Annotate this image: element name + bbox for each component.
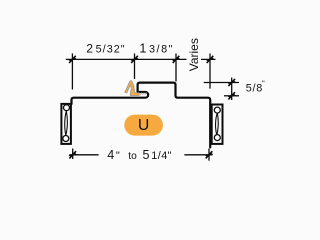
svg-text:": " <box>116 150 120 162</box>
5/8 dimension <box>204 78 239 101</box>
bottom dimension line <box>69 149 212 161</box>
gray compression marks <box>140 93 146 95</box>
svg-text:3/8": 3/8" <box>149 44 174 56</box>
tick throat right <box>205 151 214 158</box>
tick throat left <box>68 151 77 158</box>
left anchor plate <box>61 104 71 144</box>
tick at varies-right extension <box>206 56 215 63</box>
tick 5/8 top <box>227 79 236 86</box>
svg-text:to: to <box>128 151 137 162</box>
top dimension line <box>66 53 216 89</box>
svg-text:U: U <box>138 117 149 134</box>
svg-text:1/4": 1/4" <box>151 150 172 162</box>
right anchor plate <box>212 105 223 144</box>
svg-text:5/32": 5/32" <box>96 44 126 56</box>
tick at stop-left extension <box>130 56 139 63</box>
extension line varies-right <box>209 54 211 89</box>
drywall clip (orange) <box>125 81 147 96</box>
ticks on top dimension <box>68 56 214 63</box>
extension line stop-right <box>175 54 177 82</box>
label U (orange pill) <box>124 115 163 136</box>
svg-text:2: 2 <box>86 42 93 56</box>
svg-text:Varies: Varies <box>187 38 201 71</box>
svg-text:1: 1 <box>139 42 146 56</box>
extension line left <box>71 53 73 89</box>
svg-text:4: 4 <box>107 148 114 162</box>
tick at left extension <box>68 56 77 63</box>
svg-text:": " <box>262 80 265 89</box>
svg-text:5/8: 5/8 <box>246 83 263 95</box>
tick at stop-right extension <box>172 56 181 63</box>
frame profile outline <box>72 83 211 148</box>
tick 5/8 bottom <box>227 92 236 99</box>
svg-text:5: 5 <box>143 148 150 162</box>
extension line mid <box>134 54 136 80</box>
